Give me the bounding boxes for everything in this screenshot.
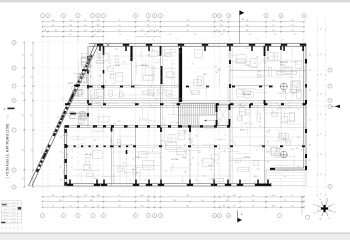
svg-text:90: 90 [219, 148, 221, 150]
svg-text:275: 275 [291, 25, 294, 27]
svg-text:120: 120 [155, 99, 158, 101]
svg-text:145: 145 [291, 206, 294, 208]
svg-text:415: 415 [115, 56, 118, 58]
svg-text:60: 60 [192, 158, 194, 160]
svg-text:E: E [329, 186, 330, 188]
svg-text:385: 385 [272, 206, 275, 208]
svg-text:145: 145 [69, 30, 72, 32]
svg-text:255: 255 [69, 25, 72, 27]
svg-text:90: 90 [102, 129, 104, 131]
svg-text:B: B [329, 86, 330, 88]
svg-text:8: 8 [135, 15, 136, 17]
svg-text:150: 150 [291, 149, 294, 151]
svg-text:120: 120 [274, 34, 277, 36]
svg-text:150: 150 [99, 76, 102, 78]
svg-text:120: 120 [268, 161, 270, 164]
svg-text:90: 90 [187, 30, 189, 32]
svg-text:120: 120 [141, 30, 144, 32]
svg-text:9: 9 [148, 15, 149, 17]
svg-text:120: 120 [244, 104, 247, 106]
svg-text:90: 90 [119, 20, 121, 22]
svg-text:2.10: 2.10 [123, 163, 126, 165]
svg-text:345: 345 [186, 195, 189, 197]
svg-text:14: 14 [228, 15, 230, 17]
svg-text:1.25: 1.25 [214, 66, 217, 68]
svg-text:500: 500 [246, 25, 249, 27]
svg-text:115: 115 [321, 93, 323, 95]
svg-text:10: 10 [214, 215, 216, 217]
svg-text:130: 130 [220, 20, 223, 22]
svg-text:165: 165 [97, 20, 100, 22]
svg-text:120: 120 [185, 144, 187, 147]
svg-text:200: 200 [284, 176, 287, 178]
svg-text:200: 200 [198, 152, 201, 154]
svg-text:255: 255 [31, 54, 33, 57]
svg-text:255: 255 [223, 30, 226, 32]
svg-text:120: 120 [310, 144, 312, 147]
svg-text:90: 90 [77, 40, 79, 42]
svg-text:120: 120 [194, 34, 197, 36]
svg-text:90: 90 [289, 108, 291, 110]
svg-text:300: 300 [297, 166, 300, 168]
svg-text:420: 420 [52, 25, 55, 27]
svg-text:345: 345 [263, 63, 266, 65]
svg-text:1: 1 [42, 215, 43, 217]
svg-text:130: 130 [84, 25, 87, 27]
svg-text:120: 120 [310, 69, 312, 72]
svg-text:115: 115 [321, 173, 323, 175]
svg-text:515: 515 [118, 206, 121, 208]
svg-text:300: 300 [296, 148, 299, 150]
svg-text:1.25: 1.25 [92, 99, 95, 101]
svg-text:120: 120 [144, 34, 147, 36]
svg-text:275: 275 [99, 30, 102, 32]
svg-text:1.25: 1.25 [201, 160, 204, 162]
svg-text:90: 90 [102, 40, 104, 42]
svg-text:115: 115 [321, 133, 323, 135]
svg-text:90: 90 [108, 63, 110, 65]
svg-text:75: 75 [109, 124, 111, 126]
svg-text:1.25: 1.25 [181, 181, 184, 183]
svg-text:420: 420 [147, 20, 150, 22]
svg-text:420: 420 [216, 30, 219, 32]
svg-text:1.25: 1.25 [132, 103, 135, 105]
svg-text:9: 9 [160, 215, 161, 217]
svg-text:ODA: ODA [208, 164, 213, 167]
svg-text:120: 120 [195, 180, 198, 182]
svg-text:ODA: ODA [282, 90, 287, 93]
svg-text:415: 415 [136, 172, 139, 174]
svg-text:120: 120 [69, 34, 72, 36]
svg-text:1.25: 1.25 [164, 171, 167, 173]
svg-text:1.25: 1.25 [147, 55, 150, 57]
svg-text:345: 345 [110, 140, 113, 142]
svg-text:255: 255 [23, 177, 25, 180]
svg-text:2.10: 2.10 [107, 108, 110, 110]
svg-text:150: 150 [81, 144, 84, 146]
svg-text:75: 75 [164, 124, 166, 126]
svg-text:150: 150 [65, 132, 68, 134]
svg-text:60: 60 [119, 25, 121, 27]
svg-text:385: 385 [186, 25, 189, 27]
svg-text:2.10: 2.10 [276, 109, 279, 111]
svg-text:115: 115 [321, 153, 323, 155]
svg-text:115: 115 [321, 113, 323, 115]
svg-text:300: 300 [81, 112, 84, 114]
svg-text:90: 90 [95, 126, 97, 128]
svg-text:1.25: 1.25 [156, 146, 159, 148]
svg-text:345: 345 [97, 25, 100, 27]
svg-text:120: 120 [259, 125, 262, 127]
svg-text:3: 3 [78, 215, 79, 217]
svg-text:345: 345 [216, 72, 219, 74]
svg-text:210: 210 [147, 200, 150, 202]
svg-text:75: 75 [124, 173, 126, 175]
svg-text:515: 515 [84, 195, 87, 197]
svg-text:255: 255 [186, 206, 189, 208]
svg-text:90: 90 [119, 195, 121, 197]
svg-text:340: 340 [52, 20, 55, 22]
svg-text:10: 10 [154, 15, 156, 17]
svg-text:130: 130 [59, 200, 62, 202]
svg-text:BALKON: BALKON [280, 61, 288, 64]
svg-text:250/14: 250/14 [11, 206, 15, 208]
svg-text:115: 115 [321, 73, 323, 75]
svg-text:SALON: SALON [85, 153, 92, 156]
svg-text:340: 340 [118, 30, 121, 32]
svg-text:120: 120 [253, 63, 256, 65]
svg-text:115: 115 [321, 53, 323, 55]
svg-text:300: 300 [94, 140, 97, 142]
svg-text:255: 255 [31, 114, 33, 117]
svg-text:255: 255 [31, 149, 33, 152]
svg-text:2: 2 [63, 215, 64, 217]
svg-text:15: 15 [265, 15, 267, 17]
svg-text:60: 60 [284, 142, 286, 144]
svg-text:1.25: 1.25 [62, 98, 65, 100]
svg-text:300: 300 [94, 178, 97, 180]
svg-text:90: 90 [177, 40, 179, 42]
svg-text:165: 165 [97, 195, 100, 197]
svg-text:60: 60 [292, 30, 294, 32]
svg-text:150: 150 [189, 164, 192, 166]
svg-text:340: 340 [52, 195, 55, 197]
svg-text:120: 120 [294, 34, 297, 36]
svg-text:250/14: 250/14 [11, 218, 15, 220]
svg-text:60: 60 [179, 52, 181, 54]
svg-text:120: 120 [91, 76, 93, 79]
svg-text:90: 90 [251, 123, 253, 125]
svg-text:345: 345 [223, 206, 226, 208]
svg-text:345: 345 [89, 200, 92, 202]
svg-text:90: 90 [302, 40, 304, 42]
svg-text:200: 200 [285, 156, 288, 158]
svg-text:120: 120 [268, 131, 270, 134]
svg-text:YATAK: YATAK [85, 66, 92, 69]
svg-text:HOL: HOL [203, 74, 207, 76]
svg-text:120: 120 [61, 179, 63, 182]
svg-text:75: 75 [67, 155, 69, 157]
svg-text:120: 120 [310, 89, 312, 92]
svg-text:120: 120 [310, 159, 312, 162]
svg-text:4: 4 [78, 15, 79, 17]
svg-text:120: 120 [69, 195, 72, 197]
svg-text:5: 5 [92, 15, 93, 17]
svg-text:8: 8 [154, 215, 155, 217]
svg-text:MUTFAK: MUTFAK [243, 93, 251, 96]
svg-text:13: 13 [219, 15, 221, 17]
svg-text:90: 90 [257, 40, 259, 42]
svg-text:95: 95 [94, 30, 96, 32]
svg-text:210: 210 [44, 30, 47, 32]
svg-text:2.10: 2.10 [300, 150, 303, 152]
svg-text:255: 255 [23, 76, 25, 79]
svg-text:60: 60 [132, 169, 134, 171]
svg-text:300: 300 [191, 93, 194, 95]
svg-text:120: 120 [119, 34, 122, 36]
svg-text:60: 60 [119, 200, 121, 202]
svg-text:115: 115 [321, 193, 323, 195]
svg-text:120: 120 [169, 34, 172, 36]
svg-text:500: 500 [226, 200, 229, 202]
svg-text:YATAK: YATAK [114, 64, 121, 67]
svg-text:X.01: X.01 [8, 115, 10, 119]
svg-text:75: 75 [129, 180, 131, 182]
svg-text:75: 75 [197, 164, 199, 166]
svg-text:300: 300 [118, 121, 121, 123]
svg-text:1.25: 1.25 [161, 50, 164, 52]
svg-text:500: 500 [84, 30, 87, 32]
svg-text:340: 340 [84, 206, 87, 208]
svg-text:F: F [14, 170, 15, 172]
svg-text:60: 60 [233, 206, 235, 208]
svg-text:3: 3 [63, 15, 64, 17]
svg-text:200: 200 [259, 145, 262, 147]
svg-text:12: 12 [228, 215, 230, 217]
svg-text:210: 210 [223, 195, 226, 197]
svg-text:150: 150 [297, 137, 300, 139]
svg-text:120: 120 [97, 206, 100, 208]
svg-text:250/14: 250/14 [11, 209, 15, 211]
svg-text:12: 12 [214, 15, 216, 17]
svg-text:500: 500 [272, 195, 275, 197]
svg-text:345: 345 [179, 147, 182, 149]
svg-text:60: 60 [273, 20, 275, 22]
svg-text:120: 120 [185, 131, 187, 134]
svg-text:120: 120 [297, 109, 300, 111]
svg-text:250/14: 250/14 [11, 215, 15, 217]
svg-text:130: 130 [246, 30, 249, 32]
svg-text:165: 165 [141, 206, 144, 208]
svg-text:300: 300 [131, 58, 134, 60]
svg-text:60: 60 [254, 181, 256, 183]
svg-text:1: 1 [42, 15, 43, 17]
svg-text:300: 300 [195, 135, 198, 137]
svg-text:95: 95 [292, 195, 294, 197]
svg-text:255: 255 [23, 149, 25, 152]
svg-text:90: 90 [72, 150, 74, 152]
svg-text:ada/parsel: ada/parsel [2, 212, 9, 214]
svg-text:120: 120 [61, 136, 63, 139]
svg-text:250/14: 250/14 [11, 222, 15, 224]
svg-text:ODASI: ODASI [85, 70, 91, 73]
svg-text:200: 200 [113, 83, 116, 85]
svg-text:200: 200 [294, 62, 297, 64]
svg-text:120: 120 [280, 72, 283, 74]
svg-text:5: 5 [103, 215, 104, 217]
svg-text:ODA: ODA [135, 156, 140, 159]
svg-text:150: 150 [81, 128, 84, 130]
svg-text:345: 345 [238, 111, 241, 113]
svg-text:150: 150 [168, 94, 171, 96]
svg-text:420: 420 [141, 195, 144, 197]
svg-text:120: 120 [268, 151, 270, 154]
svg-text:120: 120 [185, 171, 187, 174]
svg-text:275: 275 [69, 206, 72, 208]
svg-text:75: 75 [224, 135, 226, 137]
svg-text:115: 115 [321, 28, 323, 30]
svg-text:150: 150 [292, 93, 295, 95]
svg-text:m2 hesap: m2 hesap [2, 215, 8, 217]
svg-text:415: 415 [173, 74, 176, 76]
svg-text:90: 90 [282, 40, 284, 42]
svg-text:( +5.50 kotu ) 1. KAT PLANI: ( +5.50 kotu ) 1. KAT PLANI (1:50) [6, 124, 10, 179]
svg-text:210: 210 [252, 206, 255, 208]
svg-text:145: 145 [252, 195, 255, 197]
svg-text:MUTFAK: MUTFAK [171, 158, 179, 161]
svg-text:90: 90 [129, 127, 131, 129]
svg-text:255: 255 [23, 114, 25, 117]
svg-text:250/14: 250/14 [11, 202, 15, 204]
svg-text:210: 210 [147, 25, 150, 27]
svg-text:7: 7 [148, 215, 149, 217]
svg-text:1.25: 1.25 [261, 75, 264, 77]
svg-text:210: 210 [291, 20, 294, 22]
svg-text:150: 150 [191, 141, 194, 143]
svg-text:250/14: 250/14 [11, 212, 15, 214]
svg-text:385: 385 [54, 30, 57, 32]
svg-text:300: 300 [263, 59, 266, 61]
svg-text:120: 120 [268, 141, 270, 144]
svg-text:120: 120 [310, 119, 312, 122]
svg-text:515: 515 [150, 30, 153, 32]
svg-text:17: 17 [303, 15, 305, 17]
svg-text:90: 90 [192, 64, 194, 66]
svg-text:145: 145 [220, 25, 223, 27]
svg-text:345: 345 [69, 97, 72, 99]
svg-text:95: 95 [273, 25, 275, 27]
svg-text:275: 275 [284, 200, 287, 202]
svg-text:300: 300 [257, 169, 260, 171]
svg-text:ODA: ODA [245, 64, 250, 67]
svg-text:120: 120 [61, 166, 63, 169]
svg-text:60: 60 [176, 122, 178, 124]
svg-text:6: 6 [98, 15, 99, 17]
svg-text:255: 255 [31, 92, 33, 95]
svg-text:90: 90 [127, 40, 129, 42]
svg-text:120: 120 [91, 54, 93, 57]
svg-text:90: 90 [229, 40, 231, 42]
svg-text:385: 385 [233, 195, 236, 197]
svg-text:255: 255 [23, 54, 25, 57]
svg-text:300: 300 [62, 172, 65, 174]
svg-text:1.25: 1.25 [216, 163, 219, 165]
svg-text:345: 345 [272, 30, 275, 32]
svg-text:120: 120 [130, 145, 133, 147]
svg-text:11: 11 [219, 215, 221, 217]
svg-text:415: 415 [152, 49, 155, 51]
svg-text:E: E [13, 130, 14, 132]
svg-text:150: 150 [190, 132, 193, 134]
svg-text:1.25: 1.25 [123, 62, 126, 64]
svg-text:120: 120 [221, 34, 224, 36]
svg-text:2: 2 [48, 15, 49, 17]
svg-text:90: 90 [77, 136, 79, 138]
svg-text:90: 90 [211, 170, 213, 172]
svg-text:proje adi: proje adi [3, 206, 9, 208]
svg-text:6: 6 [135, 215, 136, 217]
svg-text:11: 11 [160, 15, 162, 17]
svg-text:255: 255 [186, 20, 189, 22]
svg-text:120: 120 [69, 20, 72, 22]
svg-text:SALON: SALON [142, 64, 149, 67]
svg-text:2.10: 2.10 [115, 49, 118, 51]
svg-text:150: 150 [144, 180, 147, 182]
svg-text:90: 90 [290, 76, 292, 78]
svg-text:120: 120 [61, 151, 63, 154]
svg-text:60: 60 [159, 156, 161, 158]
svg-text:120: 120 [185, 157, 187, 160]
svg-text:7: 7 [103, 15, 104, 17]
svg-text:imza yeri: imza yeri [3, 202, 9, 204]
svg-text:300: 300 [114, 123, 117, 125]
svg-text:345: 345 [246, 20, 249, 22]
svg-text:145: 145 [201, 200, 204, 202]
svg-text:165: 165 [156, 30, 159, 32]
svg-text:60: 60 [297, 84, 299, 86]
svg-text:385: 385 [174, 200, 177, 202]
svg-text:415: 415 [244, 124, 247, 126]
svg-text:90: 90 [152, 40, 154, 42]
svg-text:345: 345 [204, 176, 207, 178]
svg-text:255: 255 [31, 76, 33, 79]
svg-text:120: 120 [249, 34, 252, 36]
svg-text:120: 120 [94, 34, 97, 36]
svg-text:ODA: ODA [282, 138, 287, 141]
svg-text:2.10: 2.10 [258, 71, 261, 73]
svg-text:515: 515 [84, 20, 87, 22]
svg-text:120: 120 [310, 54, 312, 57]
svg-text:60: 60 [71, 157, 73, 159]
svg-text:90: 90 [202, 40, 204, 42]
svg-text:95: 95 [52, 206, 54, 208]
svg-text:200: 200 [256, 57, 259, 59]
svg-text:B: B [13, 68, 14, 70]
svg-text:75: 75 [162, 85, 164, 87]
svg-text:95: 95 [252, 200, 254, 202]
svg-text:75: 75 [256, 150, 258, 152]
svg-text:75: 75 [96, 98, 98, 100]
svg-text:60: 60 [150, 86, 152, 88]
svg-text:4: 4 [93, 215, 94, 217]
svg-text:16: 16 [280, 15, 282, 17]
svg-text:415: 415 [88, 168, 91, 170]
svg-text:75: 75 [173, 63, 175, 65]
svg-text:255: 255 [23, 92, 25, 95]
svg-text:120: 120 [246, 48, 249, 50]
svg-text:300: 300 [152, 96, 155, 98]
svg-text:YATAK: YATAK [244, 156, 251, 159]
